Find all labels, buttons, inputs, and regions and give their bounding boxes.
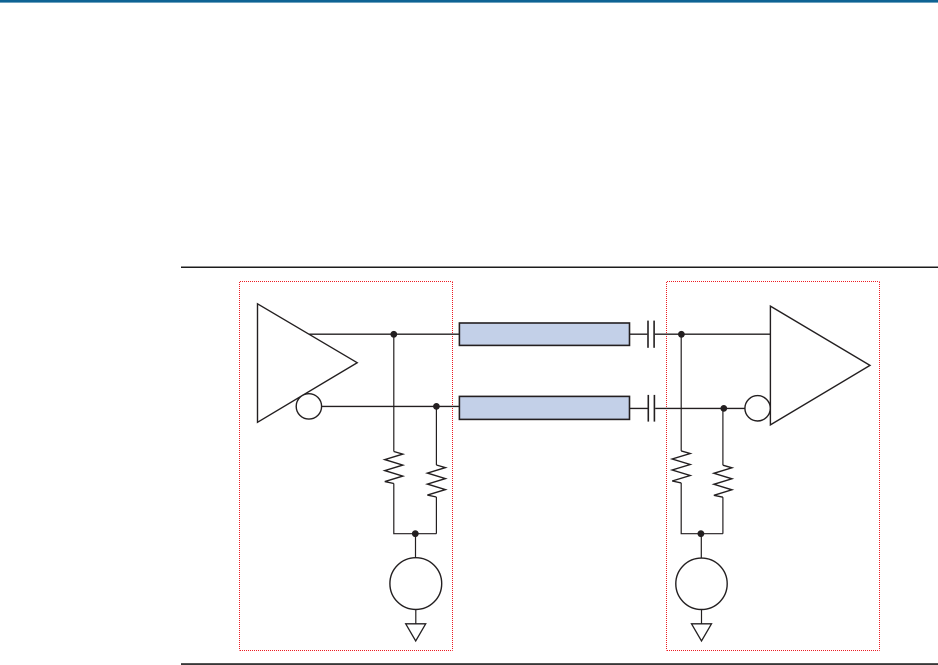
resistor R4 [714,465,732,497]
wire (R3 to common) [681,483,723,534]
driver U1 [258,304,358,423]
wire (R1 to common) [394,484,437,534]
header bar [0,0,938,3]
wire (V1 to ground) [415,610,417,625]
resistor R1 [385,452,403,484]
voltage source V2 [676,558,727,609]
receiver U2 [770,306,870,425]
resistor R2 [427,465,445,497]
wire (node A down to R1) [393,334,395,451]
node E (junction dot, receiver - input) [720,405,727,412]
inversion bubble (driver - output) [296,394,321,419]
bottom rule [181,663,938,665]
transmission line TL1 [459,323,629,345]
wire (V2 to ground) [701,610,703,625]
voltage source V1 [390,558,442,610]
wire (node E down to R4) [722,408,724,465]
wire (R2 to common) [435,497,437,534]
node B (junction dot, - output) [433,403,440,410]
receiver block boundary (dotted) [667,282,880,651]
wire (TL1 to C1) [630,333,648,335]
wire (R4 to common) [722,497,724,534]
node F (termination common) [698,530,705,537]
wire (node F to V2) [700,534,702,559]
capacitor C1 [648,321,654,348]
driver block boundary (dotted) [240,282,453,651]
ground (right) [692,624,712,641]
inversion bubble (receiver - input) [745,396,770,421]
node C (termination common) [412,530,419,537]
wire (C2 to receiver bubble) [655,407,745,409]
wire (driver + output to line) [309,333,459,335]
wire (node C to V1) [415,534,417,558]
top rule [181,266,938,268]
transmission line TL2 [459,396,629,419]
ground (left) [406,624,426,641]
wire (node D down to R3) [680,334,682,451]
wire (TL2 to C2) [630,407,648,409]
capacitor C2 [648,395,654,422]
wire (node B down to R2) [435,406,437,465]
wire (C1 to receiver +) [655,333,771,335]
resistor R3 [672,451,690,483]
node D (junction dot, receiver + input) [678,331,685,338]
wire (driver - output to line) [322,405,460,407]
node A (junction dot, + output) [390,331,397,338]
